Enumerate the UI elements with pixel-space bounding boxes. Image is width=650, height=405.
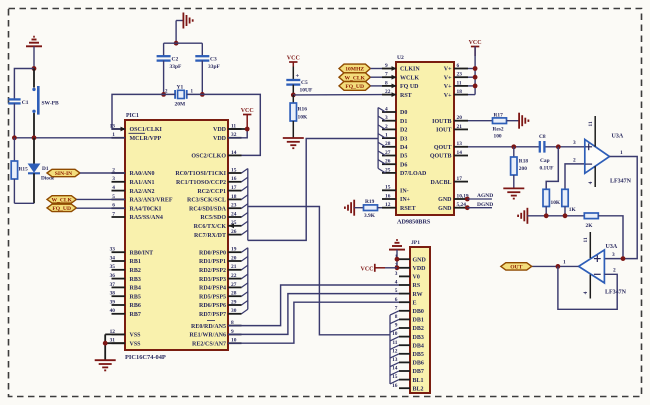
- svg-text:RE0/RD/AN5: RE0/RD/AN5: [191, 324, 226, 330]
- svg-text:RC4/SDI/SDA: RC4/SDI/SDA: [189, 206, 227, 212]
- svg-text:+: +: [296, 72, 300, 79]
- svg-text:26: 26: [385, 159, 391, 165]
- wire RD0-RD7 bus harness: [242, 248, 248, 314]
- svg-text:OSC2/CLKO: OSC2/CLKO: [191, 154, 226, 160]
- power VCC (PIC VDD): [241, 108, 254, 129]
- svg-text:38: 38: [110, 291, 116, 297]
- svg-text:4: 4: [112, 185, 115, 191]
- wire U3B output to OUT: [532, 260, 579, 267]
- svg-text:10K: 10K: [298, 115, 309, 121]
- svg-text:10MHZ: 10MHZ: [345, 67, 364, 73]
- diode D1: [28, 138, 55, 204]
- svg-text:RB4: RB4: [130, 286, 141, 292]
- svg-text:11: 11: [457, 80, 462, 86]
- wire node to 10K bias resistor: [546, 147, 558, 190]
- svg-text:21: 21: [231, 264, 237, 270]
- svg-text:2: 2: [613, 268, 616, 274]
- wire node to RST pin 22: [293, 94, 382, 96]
- svg-text:RD5/PSP5: RD5/PSP5: [199, 294, 226, 300]
- svg-text:DB5: DB5: [413, 352, 424, 358]
- svg-text:DB3: DB3: [413, 335, 424, 341]
- U2 right pins with numbers and names: [430, 63, 469, 212]
- svg-text:15: 15: [385, 185, 391, 191]
- PIC1 left pins with numbers and names: [110, 123, 173, 347]
- node VSS junction: [103, 341, 108, 346]
- svg-text:18: 18: [457, 89, 463, 95]
- svg-text:D5: D5: [400, 154, 407, 160]
- ground (analog rail): [518, 208, 527, 224]
- node rail-10K junction: [544, 213, 549, 218]
- svg-text:14: 14: [392, 366, 398, 372]
- svg-text:RC0/T1OSI/T1CKI: RC0/T1OSI/T1CKI: [175, 171, 226, 177]
- op-amp U3B power pin 11: [583, 232, 590, 258]
- svg-text:RE1/WR/AN6: RE1/WR/AN6: [189, 333, 226, 339]
- svg-text:0.1UF: 0.1UF: [540, 166, 555, 172]
- op-amp U3A LF347N (top): [585, 134, 632, 185]
- node crystal pin2 junction: [161, 92, 166, 97]
- svg-text:RB6: RB6: [130, 303, 141, 309]
- svg-text:28: 28: [231, 291, 237, 297]
- svg-text:IN-: IN-: [400, 189, 409, 195]
- svg-text:13: 13: [392, 357, 398, 363]
- node V+ junction pin23: [473, 75, 478, 80]
- svg-text:DB4: DB4: [413, 343, 424, 349]
- wire crystal cap tops: [164, 43, 203, 56]
- port FQ_UD (to U2): [339, 82, 382, 91]
- svg-text:7: 7: [385, 72, 388, 78]
- resistor 10K (bias): [543, 189, 561, 216]
- svg-text:D1: D1: [42, 166, 49, 172]
- svg-text:LF347N: LF347N: [605, 289, 627, 295]
- svg-text:20: 20: [457, 115, 463, 121]
- svg-text:GND: GND: [438, 206, 452, 212]
- ground (signal ground, above switch): [26, 37, 42, 47]
- U2 left pins with numbers and names: [382, 63, 427, 212]
- svg-text:RB7: RB7: [130, 312, 141, 318]
- resistor R17 Res2 100: [468, 112, 519, 139]
- resistor R16 10K: [290, 95, 308, 138]
- svg-text:DB0: DB0: [413, 309, 424, 315]
- svg-text:CLKIN: CLKIN: [400, 67, 420, 73]
- svg-text:15: 15: [231, 167, 237, 173]
- wire crystal to OSC2/CLKO pin 14: [187, 94, 261, 155]
- node V+ junction pin11: [473, 84, 478, 89]
- svg-text:28: 28: [385, 141, 391, 147]
- svg-text:24: 24: [231, 211, 237, 217]
- svg-text:R15: R15: [19, 167, 28, 173]
- svg-text:RS: RS: [413, 283, 421, 289]
- node C8-opamp junction: [556, 144, 561, 149]
- svg-text:1K: 1K: [569, 207, 577, 213]
- svg-text:BL1: BL1: [413, 378, 424, 384]
- svg-text:RB5: RB5: [130, 294, 141, 300]
- svg-text:U3A: U3A: [606, 244, 618, 250]
- svg-text:2K: 2K: [586, 223, 594, 229]
- svg-text:D3: D3: [400, 136, 407, 142]
- capacitor C5 10UF: [286, 67, 313, 95]
- svg-text:MCLR/VPP: MCLR/VPP: [130, 136, 162, 142]
- op-amp U3A power pin 4: [588, 166, 595, 187]
- node VDD junction: [245, 127, 250, 132]
- svg-text:RD3/PSP3: RD3/PSP3: [199, 277, 226, 283]
- svg-text:RB2: RB2: [130, 268, 141, 274]
- svg-text:VSS: VSS: [130, 341, 142, 347]
- ground (above JP1 pin1): [389, 240, 405, 250]
- svg-text:LF347N: LF347N: [610, 178, 632, 184]
- node QOUT-R18 junction: [511, 144, 516, 149]
- svg-text:3: 3: [612, 252, 615, 258]
- svg-text:27: 27: [231, 282, 237, 288]
- svg-text:5,24: 5,24: [457, 202, 467, 208]
- svg-text:22: 22: [231, 273, 237, 279]
- wire node to C1 branch: [14, 69, 34, 100]
- svg-text:Res2: Res2: [493, 127, 504, 133]
- svg-text:OSC1/CLKI: OSC1/CLKI: [130, 127, 163, 133]
- svg-text:VCC: VCC: [241, 108, 254, 114]
- svg-text:DB2: DB2: [413, 326, 424, 332]
- ground (left of R19): [345, 200, 354, 216]
- wire U3B feedback loop: [558, 266, 617, 309]
- svg-text:RA2/AN2: RA2/AN2: [130, 189, 155, 195]
- wire D0-D7 bus harness (U2): [378, 108, 385, 173]
- svg-text:RC7/RX/DT: RC7/RX/DT: [194, 233, 226, 239]
- switch SW-PB: [32, 69, 59, 138]
- port W_CLK (to RA3): [47, 196, 125, 204]
- svg-text:BL2: BL2: [413, 386, 424, 392]
- microcontroller PIC1 PIC16C74-04P body: [125, 113, 228, 361]
- node C5-R16-RST junction: [291, 93, 296, 98]
- node MCLR-C1 junction: [12, 135, 17, 140]
- svg-text:11: 11: [588, 121, 594, 126]
- net label DGND: [467, 202, 493, 208]
- svg-text:4: 4: [583, 291, 589, 294]
- svg-text:SW-PB: SW-PB: [42, 101, 60, 107]
- capacitor C8 Cap 0.1UF: [539, 134, 554, 171]
- svg-text:29: 29: [231, 299, 237, 305]
- svg-text:1: 1: [563, 260, 566, 266]
- wire RE1 to LCD RW: [228, 294, 399, 335]
- svg-text:W_CLK: W_CLK: [51, 198, 72, 204]
- svg-text:VCC: VCC: [469, 40, 482, 46]
- wire U3A output to 2K and U3B input: [598, 150, 637, 259]
- svg-text:RC1/T1OSO/CCP2: RC1/T1OSO/CCP2: [176, 180, 226, 186]
- svg-text:RA4/T0CKI: RA4/T0CKI: [130, 206, 162, 212]
- svg-text:12: 12: [385, 202, 391, 208]
- svg-text:8: 8: [395, 314, 398, 320]
- svg-text:23: 23: [231, 203, 237, 209]
- svg-text:35: 35: [110, 264, 116, 270]
- svg-text:18: 18: [231, 194, 237, 200]
- wire RE2 to LCD E: [228, 302, 399, 343]
- svg-text:VDD: VDD: [213, 127, 227, 133]
- svg-text:19: 19: [231, 247, 237, 253]
- svg-text:GND: GND: [438, 197, 452, 203]
- svg-text:14: 14: [457, 150, 463, 156]
- svg-text:AGND: AGND: [477, 193, 493, 199]
- wire QOUT to C8 and op-amp: [468, 140, 585, 147]
- svg-text:10: 10: [392, 331, 398, 337]
- svg-text:C2: C2: [172, 57, 179, 63]
- svg-text:RD0/PSP0: RD0/PSP0: [199, 250, 226, 256]
- svg-text:IOUT: IOUT: [436, 128, 451, 134]
- svg-text:GND: GND: [413, 257, 427, 263]
- wire RE0 to LCD RS: [228, 285, 399, 326]
- svg-text:RD7/PSP7: RD7/PSP7: [199, 312, 226, 318]
- svg-text:RA1/AN1: RA1/AN1: [130, 180, 155, 186]
- svg-text:V+: V+: [444, 84, 452, 90]
- JP1 pins with numbers and names: [392, 254, 426, 393]
- svg-text:RA5/SS/AN4: RA5/SS/AN4: [130, 215, 163, 221]
- svg-text:39: 39: [110, 299, 116, 305]
- svg-text:11: 11: [392, 340, 397, 346]
- svg-text:27: 27: [385, 150, 391, 156]
- port W_CLK (to U2): [339, 73, 382, 82]
- svg-text:VDD: VDD: [213, 136, 227, 142]
- op-amp U3A power pin 11: [588, 116, 595, 147]
- svg-text:RE2/CS/AN7: RE2/CS/AN7: [192, 341, 226, 347]
- net label AGND: [467, 193, 493, 199]
- svg-text:200: 200: [519, 166, 527, 172]
- svg-text:16: 16: [385, 193, 391, 199]
- svg-text:21: 21: [457, 124, 463, 130]
- svg-text:3: 3: [112, 176, 115, 182]
- port SIN-IN: [47, 169, 125, 177]
- connector JP1 (LCD) body: [410, 240, 430, 393]
- svg-text:RC6/TX/CK: RC6/TX/CK: [194, 224, 227, 230]
- wire VDD pins to VCC: [228, 129, 247, 138]
- svg-text:VDD: VDD: [413, 266, 427, 272]
- ground (below R16): [283, 138, 304, 148]
- svg-text:10UF: 10UF: [300, 88, 313, 94]
- svg-text:RC2/CCP1: RC2/CCP1: [197, 189, 226, 195]
- port 10MHZ: [339, 64, 382, 73]
- svg-text:13: 13: [457, 141, 463, 147]
- svg-text:33: 33: [110, 247, 116, 253]
- svg-text:RC5/SDO: RC5/SDO: [200, 215, 226, 221]
- svg-text:37: 37: [110, 282, 116, 288]
- svg-text:OUT: OUT: [510, 265, 522, 271]
- svg-text:JP1: JP1: [411, 240, 420, 246]
- svg-text:D2: D2: [400, 128, 407, 134]
- node V+ junction pin6: [473, 66, 478, 71]
- svg-text:RD2/PSP2: RD2/PSP2: [199, 268, 226, 274]
- svg-text:V+: V+: [444, 67, 452, 73]
- wire DB0-DB7 bus harness (JP1): [390, 311, 399, 384]
- svg-text:3.9K: 3.9K: [364, 213, 376, 219]
- port OUT: [501, 263, 532, 271]
- svg-text:IOUTB: IOUTB: [432, 119, 451, 125]
- svg-text:W_CLK: W_CLK: [344, 75, 365, 81]
- node JP1 pin2 junction: [395, 265, 400, 270]
- svg-text:4: 4: [588, 181, 594, 184]
- svg-text:WCLK: WCLK: [400, 75, 419, 81]
- svg-text:QOUT: QOUT: [434, 145, 452, 151]
- resistor R18 200: [511, 147, 529, 188]
- ground (below R18): [503, 188, 524, 198]
- resistor 1K (op-amp input): [562, 158, 585, 216]
- svg-text:VSS: VSS: [130, 333, 142, 339]
- svg-text:PIC1: PIC1: [126, 113, 139, 119]
- svg-text:2: 2: [573, 158, 576, 164]
- svg-text:16: 16: [231, 176, 237, 182]
- node feedback junction: [621, 256, 626, 261]
- op-amp U3A LF347N (bottom): [579, 244, 627, 295]
- svg-text:D7/LOAD: D7/LOAD: [400, 171, 427, 177]
- svg-text:23: 23: [457, 72, 463, 78]
- wire ground to JP1 pin1: [396, 250, 398, 268]
- svg-text:C3: C3: [210, 57, 217, 63]
- node output feedback junction: [556, 264, 561, 269]
- svg-text:D1: D1: [400, 119, 407, 125]
- svg-text:RSET: RSET: [400, 206, 416, 212]
- power VCC (JP1 VDD): [361, 264, 398, 273]
- svg-text:20: 20: [231, 255, 237, 261]
- wire ground to crystal node: [175, 21, 177, 44]
- ground (right of R17): [519, 113, 528, 129]
- svg-text:R16: R16: [298, 107, 308, 113]
- svg-text:C5: C5: [301, 80, 308, 86]
- svg-text:AD9850BRS: AD9850BRS: [397, 219, 431, 226]
- svg-text:11: 11: [583, 237, 589, 242]
- svg-text:DGND: DGND: [477, 202, 493, 208]
- svg-text:IN+: IN+: [400, 197, 411, 203]
- resistor 2K: [584, 213, 598, 229]
- svg-text:17: 17: [457, 176, 463, 182]
- node crystal pin1 junction: [200, 92, 205, 97]
- capacitor C1: [8, 99, 29, 137]
- wire ground to switch node: [33, 46, 35, 68]
- svg-text:8: 8: [385, 80, 388, 86]
- svg-text:9: 9: [395, 323, 398, 329]
- svg-text:FQ UD: FQ UD: [400, 84, 419, 90]
- svg-text:RD4/PSP4: RD4/PSP4: [199, 286, 226, 292]
- svg-text:17: 17: [231, 185, 237, 191]
- power VCC (U2 V+): [469, 40, 482, 56]
- svg-text:VCC: VCC: [361, 266, 374, 272]
- svg-text:DB6: DB6: [413, 361, 424, 367]
- svg-text:PIC16C74-04P: PIC16C74-04P: [125, 354, 166, 361]
- ground (signal ground, crystal top): [176, 13, 193, 29]
- svg-text:RB1: RB1: [130, 259, 141, 265]
- crystal Y1 20M: [165, 85, 194, 108]
- resistor R19 3.9K: [354, 199, 382, 219]
- node MCLR-switch junction: [32, 135, 37, 140]
- svg-text:16: 16: [392, 383, 398, 389]
- node DGND junction: [465, 205, 470, 210]
- svg-text:RA3/AN3/VREF: RA3/AN3/VREF: [130, 198, 173, 204]
- wire RC bus to AD9850 data bus: [248, 139, 378, 241]
- svg-text:E: E: [413, 300, 417, 306]
- svg-text:100: 100: [494, 134, 502, 140]
- capacitor C3 33pF: [195, 56, 220, 94]
- capacitor C2 33pF: [157, 56, 182, 94]
- svg-text:C8: C8: [539, 134, 546, 140]
- svg-text:1: 1: [620, 150, 623, 156]
- svg-text:D0: D0: [400, 110, 407, 116]
- svg-text:36: 36: [110, 273, 116, 279]
- node rail-1K junction: [563, 213, 568, 218]
- svg-text:RST: RST: [400, 93, 412, 99]
- svg-text:RW: RW: [413, 292, 423, 298]
- wire crystal to OSC1/CLKI pin 13: [112, 94, 175, 131]
- svg-text:QOUTB: QOUTB: [430, 154, 452, 160]
- svg-text:14: 14: [231, 150, 237, 156]
- wire MCLR/VPP net: [14, 137, 125, 139]
- svg-text:FQ_UD: FQ_UD: [345, 84, 364, 90]
- svg-text:25: 25: [385, 167, 391, 173]
- node crystal top junction: [174, 41, 179, 46]
- svg-text:30: 30: [231, 308, 237, 314]
- svg-text:RD6/PSP6: RD6/PSP6: [199, 303, 226, 309]
- svg-text:V+: V+: [444, 93, 452, 99]
- svg-text:RB0/INT: RB0/INT: [130, 250, 154, 256]
- wire analog ground rail: [527, 215, 584, 217]
- svg-text:D4: D4: [400, 145, 407, 151]
- svg-text:SIN-IN: SIN-IN: [55, 171, 72, 177]
- power VCC (reset RC): [287, 55, 300, 66]
- svg-text:DB7: DB7: [413, 369, 424, 375]
- svg-text:U2: U2: [397, 55, 404, 61]
- svg-text:R17: R17: [494, 112, 504, 118]
- svg-text:Cap: Cap: [540, 158, 550, 164]
- svg-text:3: 3: [573, 140, 576, 146]
- svg-text:33pF: 33pF: [208, 64, 221, 70]
- op-amp U3B power pin 4: [583, 275, 590, 299]
- resistor R15: [11, 138, 28, 204]
- node JP1 pin1 junction: [395, 257, 400, 262]
- svg-text:V0: V0: [413, 275, 420, 281]
- svg-text:9: 9: [385, 63, 388, 69]
- svg-text:7: 7: [395, 305, 398, 311]
- wire VSS pins to ground: [105, 334, 125, 359]
- svg-text:20M: 20M: [175, 101, 187, 107]
- wire RC0-RC7 bus harness: [242, 169, 248, 241]
- PIC1 right pins with numbers and names: [175, 123, 241, 347]
- ground (PIC VSS): [95, 360, 116, 370]
- DDS chip U2 AD9850BRS body: [396, 55, 454, 226]
- svg-text:RB3: RB3: [130, 277, 141, 283]
- svg-text:26: 26: [231, 229, 237, 235]
- svg-text:RD1/PSP1: RD1/PSP1: [199, 259, 226, 265]
- node AGND junction: [465, 197, 470, 202]
- svg-text:22: 22: [385, 89, 391, 95]
- svg-text:VCC: VCC: [287, 55, 300, 61]
- svg-text:U3A: U3A: [612, 134, 624, 140]
- svg-text:DACBL: DACBL: [430, 180, 451, 186]
- svg-text:12: 12: [392, 348, 398, 354]
- wire V+ pins rail: [468, 47, 475, 95]
- svg-text:10K: 10K: [551, 200, 561, 206]
- svg-text:6: 6: [457, 63, 460, 69]
- svg-text:33pF: 33pF: [170, 64, 183, 70]
- svg-text:7: 7: [112, 211, 115, 217]
- node switch top junction: [32, 66, 37, 71]
- wire RC bus to LCD data bus: [248, 207, 390, 335]
- svg-text:R18: R18: [519, 158, 529, 164]
- svg-text:DB1: DB1: [413, 318, 424, 324]
- svg-text:RA0/AN0: RA0/AN0: [130, 171, 155, 177]
- svg-text:D6: D6: [400, 162, 407, 168]
- svg-text:3: 3: [395, 271, 398, 277]
- wire R15-D1 bottom join: [14, 202, 34, 204]
- svg-text:34: 34: [110, 255, 116, 261]
- svg-text:15: 15: [392, 374, 398, 380]
- port FQ_UD (to RA4): [47, 204, 125, 212]
- svg-text:R19: R19: [365, 199, 375, 205]
- svg-text:RC3/SCK/SCL: RC3/SCK/SCL: [187, 198, 226, 204]
- svg-text:V+: V+: [444, 75, 452, 81]
- svg-text:FQ_UD: FQ_UD: [52, 206, 71, 212]
